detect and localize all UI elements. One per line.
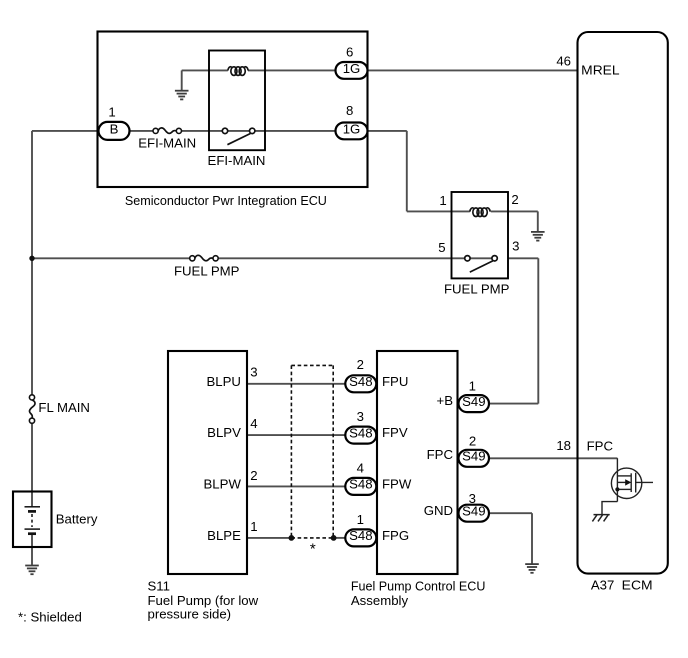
svg-text:FPU: FPU — [382, 374, 408, 389]
svg-text:+B: +B — [437, 393, 454, 408]
svg-text:8: 8 — [346, 103, 353, 118]
svg-text:BLPE: BLPE — [207, 528, 241, 543]
svg-text:1: 1 — [250, 519, 257, 534]
svg-text:S48: S48 — [349, 374, 372, 389]
svg-text:B: B — [110, 122, 119, 137]
svg-text:1G: 1G — [343, 122, 361, 137]
svg-text:pressure side): pressure side) — [148, 607, 232, 622]
svg-text:5: 5 — [438, 240, 445, 255]
svg-text:4: 4 — [357, 461, 364, 476]
svg-text:EFI-MAIN: EFI-MAIN — [208, 153, 266, 168]
svg-text:FPV: FPV — [382, 425, 408, 440]
svg-text:Semiconductor Pwr Integration: Semiconductor Pwr Integration ECU — [125, 193, 327, 208]
svg-text:Fuel Pump Control ECU: Fuel Pump Control ECU — [351, 578, 486, 593]
svg-text:FPW: FPW — [382, 477, 412, 492]
svg-text:MREL: MREL — [581, 63, 619, 78]
svg-text:2: 2 — [511, 192, 518, 207]
svg-text:18: 18 — [556, 438, 571, 453]
svg-text:EFI-MAIN: EFI-MAIN — [138, 135, 196, 150]
svg-text:1: 1 — [357, 512, 364, 527]
svg-text:2: 2 — [250, 468, 257, 483]
svg-text:A37: A37 — [591, 578, 614, 593]
svg-text:1: 1 — [108, 105, 115, 120]
svg-text:S49: S49 — [462, 394, 485, 409]
svg-text:BLPV: BLPV — [207, 425, 241, 440]
svg-text:BLPU: BLPU — [206, 374, 240, 389]
svg-text:1G: 1G — [343, 61, 361, 76]
svg-text:S48: S48 — [349, 425, 372, 440]
svg-text:2: 2 — [357, 357, 364, 372]
svg-text:S49: S49 — [462, 504, 485, 519]
svg-text:ECM: ECM — [622, 578, 653, 593]
svg-text:6: 6 — [346, 44, 353, 59]
svg-text:FL MAIN: FL MAIN — [38, 400, 90, 415]
svg-text:Fuel Pump (for low: Fuel Pump (for low — [148, 593, 259, 608]
svg-text:BLPW: BLPW — [204, 477, 242, 492]
svg-text:*: * — [310, 540, 316, 557]
svg-text:FUEL PMP: FUEL PMP — [174, 264, 240, 279]
svg-text:3: 3 — [512, 239, 519, 254]
svg-text:S48: S48 — [349, 477, 372, 492]
svg-text:4: 4 — [250, 416, 257, 431]
svg-text:Assembly: Assembly — [351, 593, 409, 608]
svg-text:FPC: FPC — [427, 447, 454, 462]
svg-text:FPG: FPG — [382, 528, 409, 543]
svg-text:S48: S48 — [349, 528, 372, 543]
svg-text:GND: GND — [424, 503, 453, 518]
svg-text:S49: S49 — [462, 449, 485, 464]
svg-text:2: 2 — [469, 434, 476, 449]
svg-text:1: 1 — [469, 378, 476, 393]
svg-text:1: 1 — [439, 193, 446, 208]
svg-text:46: 46 — [556, 53, 571, 68]
svg-text:Battery: Battery — [56, 512, 98, 527]
svg-text:3: 3 — [357, 409, 364, 424]
svg-text:S11: S11 — [148, 578, 171, 593]
svg-text:3: 3 — [250, 364, 257, 379]
svg-text:FPC: FPC — [587, 438, 614, 453]
svg-text:FUEL PMP: FUEL PMP — [444, 282, 510, 297]
svg-text:*: Shielded: *: Shielded — [18, 610, 82, 625]
